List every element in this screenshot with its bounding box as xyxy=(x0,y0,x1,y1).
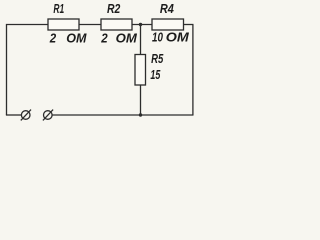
resistor R5 xyxy=(135,55,146,86)
resistor R2 xyxy=(101,19,132,30)
svg-text:R5: R5 xyxy=(151,52,164,66)
wire: top rail from left corner to R1 xyxy=(6,24,49,26)
wire: R1 to R2 xyxy=(79,24,101,26)
node junction dot bottom of R5 branch xyxy=(139,113,142,116)
wire: R2 to R4 through node xyxy=(132,24,152,26)
node junction dot top of R5 branch xyxy=(139,23,142,26)
terminal 2 circle xyxy=(44,111,53,120)
svg-text:15: 15 xyxy=(150,68,161,82)
wire: bottom rail from right corner to terminal 2 xyxy=(52,114,194,116)
wire: R4 to right corner xyxy=(184,24,194,26)
terminal 2 slash xyxy=(43,110,53,121)
svg-text:10: 10 xyxy=(152,30,163,44)
svg-text:ОМ: ОМ xyxy=(166,30,190,44)
wire: R5 branch lower segment xyxy=(140,85,142,115)
terminal 1 circle xyxy=(21,111,30,120)
svg-text:ОМ: ОМ xyxy=(116,31,138,45)
wire: R5 branch upper segment xyxy=(140,25,142,55)
resistor R1 xyxy=(48,19,79,30)
svg-text:R1: R1 xyxy=(53,2,64,16)
wire: bottom left from rail to terminal 1 xyxy=(6,114,22,116)
svg-text:ОМ: ОМ xyxy=(66,31,87,45)
wire: right rail vertical xyxy=(192,25,194,116)
svg-text:R2: R2 xyxy=(107,2,120,16)
wire: left rail vertical xyxy=(6,25,8,116)
terminal 1 slash xyxy=(21,110,31,121)
svg-text:R4: R4 xyxy=(160,2,174,16)
svg-text:2: 2 xyxy=(100,31,107,45)
svg-text:2: 2 xyxy=(49,31,56,45)
resistor R4 xyxy=(152,19,184,30)
